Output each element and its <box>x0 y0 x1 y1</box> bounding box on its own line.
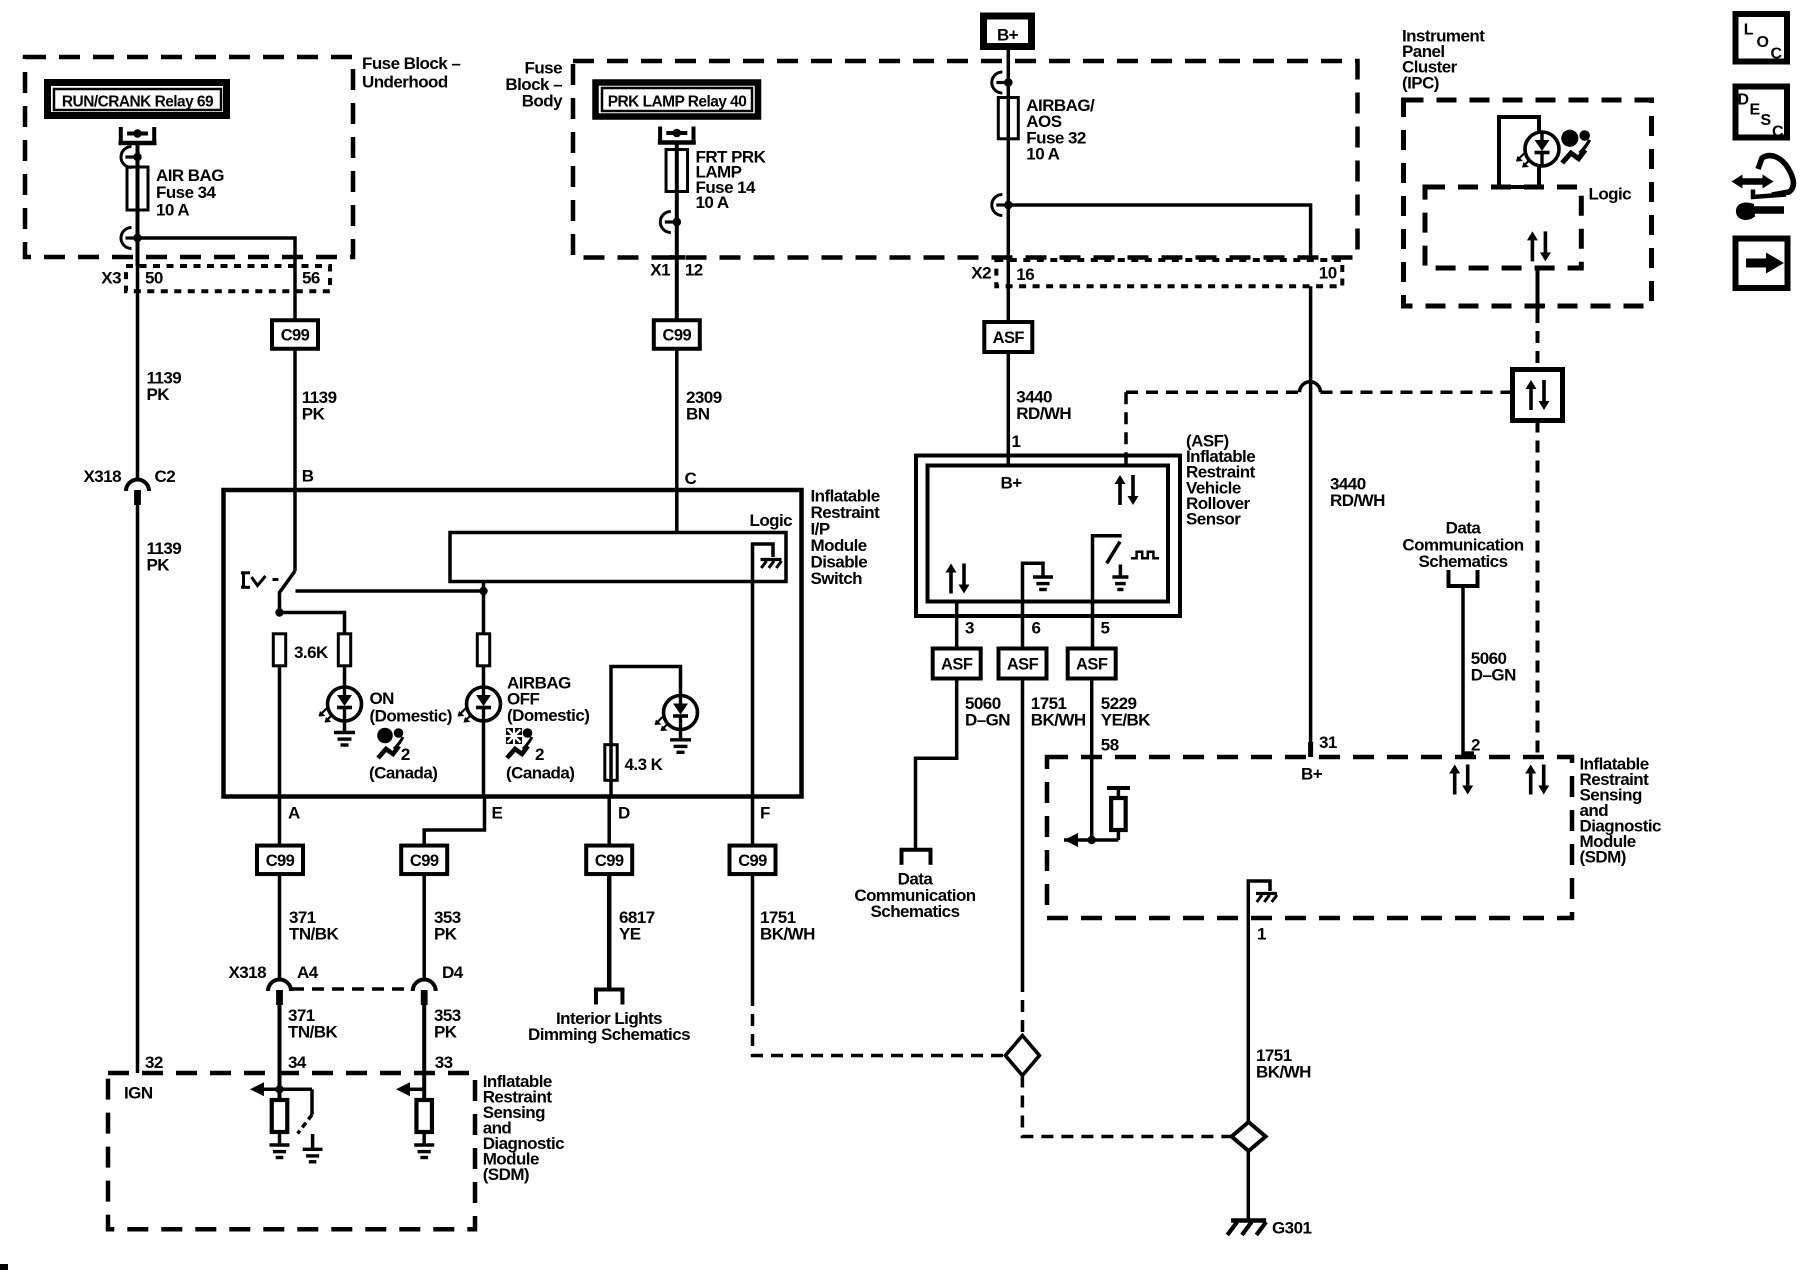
svg-text:Schematics: Schematics <box>871 902 960 921</box>
wire: A to C99 <box>278 797 282 846</box>
connector ASF (pin16 wire) <box>984 322 1032 352</box>
svg-text:X1: X1 <box>650 261 670 280</box>
relay K40 contact <box>658 127 662 144</box>
svg-text:Logic: Logic <box>750 511 793 530</box>
pin31 stub (thick) <box>1308 742 1313 757</box>
wire: resistor to ground (33) <box>422 1132 426 1144</box>
svg-text:3: 3 <box>965 619 974 638</box>
resistor (SDM pin 33) <box>416 1100 432 1132</box>
module box: I/P module disable switch <box>224 490 802 797</box>
svg-text:(Canada): (Canada) <box>506 764 574 783</box>
airbag icon (OFF Canada) <box>506 728 522 744</box>
svg-text:B: B <box>302 467 314 486</box>
ground stem (sensor pin 5) <box>1119 565 1123 577</box>
module box: SDM right (dashed) <box>1047 757 1572 918</box>
connector C99 (C wire) <box>654 320 700 349</box>
connector hook at fuse34 lower <box>121 228 132 249</box>
svg-text:C99: C99 <box>266 852 295 870</box>
dashed wire: IPC to arrow box <box>1536 311 1540 370</box>
svg-text:16: 16 <box>1016 265 1034 284</box>
wire 6817 YE <box>607 874 612 988</box>
tick at X1 crossing <box>669 255 685 260</box>
svg-text:BK/WH: BK/WH <box>760 925 815 944</box>
page corner mark <box>0 1264 8 1270</box>
svg-text:Switch: Switch <box>811 569 863 588</box>
wire: terminal B into switch <box>293 492 297 571</box>
module box: rollover sensor (inner) <box>928 466 1169 602</box>
svg-text:5: 5 <box>1101 619 1110 638</box>
svg-text:Fuse Block –: Fuse Block – <box>362 54 460 73</box>
relay K69 contact <box>119 127 123 144</box>
fuse F14 FRT PRK LAMP 10A <box>675 150 679 192</box>
svg-text:6: 6 <box>1032 619 1041 638</box>
signal arrows (sensor top right) <box>1118 482 1122 505</box>
connector hook at branch <box>992 195 1002 216</box>
connector C99 (E) <box>401 846 447 875</box>
SDM arrow (pin 33) <box>396 1082 410 1096</box>
wire resistor to LED2 <box>482 666 486 687</box>
wire: pin34 into SDM <box>278 1073 282 1100</box>
wire 1751 BK/WH (solid part) <box>1021 679 1025 981</box>
wire: branch to X2-10 <box>1008 205 1310 260</box>
wire 5060 D-GN to data comm ref <box>916 679 957 849</box>
wire: fuse 14 to X1-12 <box>675 192 679 321</box>
connector C99 (F) <box>730 846 776 875</box>
svg-text:PRK LAMP Relay 40: PRK LAMP Relay 40 <box>608 94 747 111</box>
wire: branch to X3-56 <box>138 238 296 266</box>
junction dot switch output <box>275 608 283 616</box>
ground (SDM pin 34) <box>270 1143 290 1146</box>
svg-text:RD/WH: RD/WH <box>1016 404 1071 423</box>
wire: resistor to arrow line <box>1117 830 1121 840</box>
wire: resistor to ground (34) <box>278 1132 282 1144</box>
junction dot fuse14 wire <box>673 218 681 226</box>
wire: E jog to C99 <box>424 797 484 846</box>
sensor internal switch path (pin 5) <box>1093 536 1122 602</box>
connector ASF (pin 6 wire) <box>999 649 1047 679</box>
splice diamond S1 <box>1005 1036 1039 1076</box>
svg-text:B+: B+ <box>1001 474 1023 493</box>
svg-text:10 A: 10 A <box>696 193 729 212</box>
dashed wire: sensor tap (horizontal) <box>1126 391 1300 395</box>
module box: SDM left (dashed) <box>108 1073 475 1229</box>
SDM internal line (pin 33) <box>410 1088 424 1092</box>
connector X318-A4 dome <box>268 980 291 992</box>
dashed wire: hop to IPC arrow box <box>1321 391 1513 395</box>
signal arrows (IPC logic) <box>1531 238 1535 261</box>
wire 1139 PK to SDM pin 32 <box>136 505 140 1074</box>
resistor R 4.3K <box>605 745 617 781</box>
wire: terminal D riser <box>611 667 681 797</box>
chassis ground (logic box) <box>761 558 782 561</box>
resistor R 3.6K <box>273 634 285 666</box>
svg-text:X2: X2 <box>971 264 991 283</box>
svg-text:2: 2 <box>535 745 544 764</box>
svg-text:ON: ON <box>370 689 395 708</box>
SDM internal chassis ground path <box>1248 881 1270 918</box>
svg-text:Sensor: Sensor <box>1186 510 1241 529</box>
module box: rollover sensor (outer) <box>916 456 1180 617</box>
svg-text:E: E <box>1750 102 1761 119</box>
signal arrows (SDM pin 2) <box>1453 772 1457 795</box>
module box: Fuse Block - Underhood (dashed) <box>25 57 353 257</box>
connector X318/C2 dome <box>126 480 149 492</box>
wire: logic to terminal F <box>751 582 755 797</box>
signal arrows (SDM serial data right) <box>1529 772 1533 795</box>
power B+ box <box>984 16 1032 47</box>
wire: sensor pin 5 <box>1091 602 1095 649</box>
connector hook on B+ wire <box>992 72 1002 93</box>
svg-text:A: A <box>288 804 300 823</box>
fuse F32 AIRBAG/AOS 10A <box>1007 98 1011 139</box>
switch blade (SDM) <box>298 1115 312 1134</box>
connector ASF (pin 3 wire) <box>933 649 981 679</box>
relay K40 name box: PRK LAMP Relay 40 <box>596 83 759 117</box>
connector C99 (D) <box>586 846 632 875</box>
wire 371 TN/BK (lower) <box>278 1005 282 1074</box>
junction dot under logic <box>479 587 487 595</box>
switch riser (SDM pin34) <box>310 1089 314 1114</box>
wire 353 PK (upper) <box>422 874 426 980</box>
svg-text:(SDM): (SDM) <box>483 1165 529 1184</box>
wire 1751 BK/WH from SDM pin 1 <box>1247 918 1251 1122</box>
svg-text:F: F <box>760 804 770 823</box>
resistor (SDM pin 34) <box>272 1100 288 1132</box>
svg-text:(Canada): (Canada) <box>369 764 437 783</box>
svg-text:C99: C99 <box>662 327 691 345</box>
relay K69 name box: RUN/CRANK Relay 69 <box>48 83 227 116</box>
svg-text:10: 10 <box>1319 264 1337 283</box>
svg-text:YE: YE <box>619 925 641 944</box>
off-page bracket (interior lights) <box>594 988 625 992</box>
wire: sensor pin 3 <box>955 602 959 649</box>
svg-text:PK: PK <box>434 1023 458 1042</box>
svg-text:56: 56 <box>302 269 320 288</box>
wire 3440 RD/WH from X2-10 to SDM pin 31 <box>1309 286 1313 757</box>
logic box IPC (dashed) <box>1425 187 1581 268</box>
junction dot (pin 58) <box>1088 836 1096 844</box>
wire 5229 YE/BK to SDM pin 58 <box>1090 679 1094 840</box>
chassis ground (SDM internal) <box>1256 892 1277 895</box>
wire 371 TN/BK (upper) <box>278 874 282 980</box>
svg-text:C2: C2 <box>155 467 176 486</box>
wire: terminal C into logic box <box>675 492 679 533</box>
square wave signal icon <box>1131 552 1159 559</box>
svg-text:Logic: Logic <box>1589 185 1632 204</box>
svg-text:PK: PK <box>302 405 326 424</box>
wire: relay 40 output <box>675 144 679 150</box>
svg-text:ASF: ASF <box>941 656 973 674</box>
connector ASF (pin 5 wire) <box>1068 649 1116 679</box>
svg-text:1: 1 <box>1012 432 1021 451</box>
svg-text:C: C <box>1771 46 1783 63</box>
svg-text:C99: C99 <box>738 852 767 870</box>
ground (LED3) <box>670 738 691 741</box>
svg-text:D: D <box>1738 92 1749 109</box>
svg-text:(IPC): (IPC) <box>1402 73 1439 92</box>
svg-text:Underhood: Underhood <box>362 73 448 92</box>
svg-text:L: L <box>1744 22 1754 39</box>
svg-text:10 A: 10 A <box>156 200 189 219</box>
svg-text:4.3 K: 4.3 K <box>625 755 664 774</box>
svg-text:AIR BAG: AIR BAG <box>156 166 224 185</box>
LED indicator AIRBAG OFF <box>467 687 501 721</box>
splice diamond S2 <box>1232 1122 1266 1151</box>
wire: branch resistor to LED1 <box>343 666 347 687</box>
svg-text:RUN/CRANK Relay 69: RUN/CRANK Relay 69 <box>62 94 214 111</box>
SDM internal resistor top bar <box>1107 786 1130 790</box>
ground G301 (chassis) <box>1231 1218 1266 1222</box>
svg-text:G301: G301 <box>1272 1219 1311 1238</box>
svg-text:ASF: ASF <box>1076 656 1108 674</box>
connector X2 row (dotted box) <box>996 260 1342 286</box>
switch output wire (to logic) <box>296 589 484 593</box>
svg-text:E: E <box>492 804 503 823</box>
dashed wire: tap down to sensor <box>1124 392 1128 466</box>
LED indicator (dimming) <box>664 696 698 730</box>
svg-text:TN/BK: TN/BK <box>289 925 339 944</box>
svg-text:D–GN: D–GN <box>965 711 1010 730</box>
connector hook on relay 69 wire <box>121 147 132 168</box>
icon box LOC <box>1736 14 1788 62</box>
svg-text:Body: Body <box>522 92 563 111</box>
dashed wire: splice S1 to splice S2 <box>1022 1076 1231 1137</box>
dashed wire F to splice S1 <box>753 994 1006 1056</box>
svg-text:C: C <box>685 469 697 488</box>
svg-text:X3: X3 <box>101 269 121 288</box>
logic box (disable switch) <box>450 533 786 582</box>
svg-text:Fuse 34: Fuse 34 <box>156 183 217 202</box>
svg-text:D: D <box>618 804 630 823</box>
svg-text:10 A: 10 A <box>1026 145 1059 164</box>
svg-text:A4: A4 <box>297 963 319 982</box>
svg-text:O: O <box>1757 34 1769 51</box>
wire: fuse 32 to X2-16 <box>1007 139 1011 286</box>
ground (sensor pin 5) <box>1112 575 1128 578</box>
svg-text:D4: D4 <box>442 963 464 982</box>
svg-text:1: 1 <box>1257 925 1266 944</box>
off-page bracket (data comm left) <box>900 848 933 852</box>
wire: logic to LED2 <box>482 582 486 634</box>
connector X318-D4 dome <box>413 980 436 992</box>
ground (SDM pin 33) <box>414 1143 434 1146</box>
svg-text:(Domestic): (Domestic) <box>370 706 452 725</box>
key dash <box>273 578 279 581</box>
wire hop over 3440 RD/WH <box>1300 382 1321 393</box>
svg-text:BK/WH: BK/WH <box>1256 1063 1311 1082</box>
svg-text:12: 12 <box>685 261 703 280</box>
svg-text:PK: PK <box>434 925 458 944</box>
connector C99 (A) <box>257 846 303 875</box>
ground stem (SDM switch) <box>311 1134 315 1148</box>
wire 5060 D-GN from data comm to SDM pin 2 <box>1461 586 1465 755</box>
svg-text:PK: PK <box>147 385 171 404</box>
ground (sensor pin 6) <box>1033 575 1053 578</box>
icon: schematic arrows <box>1739 178 1766 185</box>
fuse F34 AIR BAG 10A <box>136 167 140 210</box>
ground (SDM switch) <box>303 1148 323 1151</box>
SDM arrow (pin 34) <box>250 1082 264 1096</box>
svg-text:32: 32 <box>145 1053 163 1072</box>
wire 1139 PK from X3-50 <box>136 266 140 480</box>
svg-text:ASF: ASF <box>1007 656 1039 674</box>
wire: D to C99 <box>607 797 611 846</box>
ground stem LED1 <box>343 721 347 732</box>
wire: R3.6K to terminal A <box>278 666 282 797</box>
wire: sensor pin 6 <box>1021 602 1025 649</box>
svg-text:(SDM): (SDM) <box>1580 848 1626 867</box>
svg-text:PK: PK <box>147 556 171 575</box>
module box: IPC (dashed) <box>1404 100 1652 306</box>
wire: fuse 34 to X3-50 <box>136 210 140 266</box>
junction: fuse34 branch <box>133 234 141 242</box>
icon box DESC <box>1736 87 1788 138</box>
wire: F to C99 <box>751 797 755 846</box>
wire: LED2 to terminal E <box>482 721 486 797</box>
SDM internal arrow (pin 58) <box>1064 833 1078 847</box>
serial data arrow box <box>1513 370 1563 421</box>
svg-text:2: 2 <box>401 745 410 764</box>
wire: X2-16 to ASF <box>1007 286 1011 322</box>
svg-text:Schematics: Schematics <box>1419 552 1508 571</box>
airbag icon (IPC) <box>1561 130 1590 163</box>
key icon <box>241 571 250 574</box>
IPC LED frame <box>1499 117 1539 187</box>
svg-text:B+: B+ <box>1301 765 1323 784</box>
svg-text:Dimming Schematics: Dimming Schematics <box>528 1025 690 1044</box>
wire 2309 BN to terminal C <box>675 349 679 535</box>
switch blade (sensor) <box>1107 542 1120 564</box>
wire: splice S2 to G301 <box>1247 1151 1251 1220</box>
wire: B+ to fuse 32 <box>1007 50 1011 98</box>
svg-text:RD/WH: RD/WH <box>1330 491 1385 510</box>
connector X3 row (dotted box) <box>126 266 330 291</box>
svg-text:C99: C99 <box>281 327 310 345</box>
signal arrows (arrow box) <box>1529 387 1533 410</box>
svg-text:3.6K: 3.6K <box>294 643 329 662</box>
svg-text:IGN: IGN <box>124 1084 153 1103</box>
dashed wire to splice <box>1021 980 1025 1036</box>
wire: X3-56 to C99 <box>293 266 297 321</box>
wire: IPC logic output <box>1536 268 1540 311</box>
wire 1139 PK to terminal B <box>293 349 297 493</box>
LED indicator (IPC airbag lamp) <box>1525 132 1559 166</box>
resistor (LED2 branch) <box>477 634 489 666</box>
resistor (SDM pin 58) <box>1111 798 1126 830</box>
icon box arrow <box>1736 239 1788 289</box>
junction dot B+ wire <box>1004 78 1012 86</box>
module box: Fuse Block - Body (dashed) <box>573 61 1358 258</box>
svg-text:ASF: ASF <box>993 329 1025 347</box>
svg-text:C: C <box>1772 124 1784 141</box>
junction: B+ branch <box>1004 201 1012 209</box>
svg-text:YE/BK: YE/BK <box>1101 711 1151 730</box>
SDM internal resistor stem <box>1117 788 1121 798</box>
pin2 foot tick <box>1463 751 1474 755</box>
svg-text:C99: C99 <box>595 852 624 870</box>
svg-text:31: 31 <box>1319 733 1337 752</box>
svg-text:TN/BK: TN/BK <box>288 1023 338 1042</box>
wire 1751 BK/WH from C99 F <box>751 874 755 994</box>
signal arrows (sensor bottom left) <box>949 571 953 594</box>
ground stem LED3 <box>679 730 683 739</box>
dashed wire: arrow box to SDM <box>1536 421 1540 756</box>
tick at IPC boundary <box>1531 304 1546 308</box>
svg-text:BN: BN <box>686 405 710 424</box>
svg-text:34: 34 <box>288 1053 307 1072</box>
wire: relay 69 output <box>136 144 140 167</box>
dashed connector link X318 <box>292 987 412 991</box>
off-page bracket (data comm right) <box>1447 584 1480 588</box>
wire: switch node branch <box>280 613 345 634</box>
airbag icon (ON Canada) <box>377 728 393 744</box>
SDM internal wire (pin 58) <box>1064 838 1118 842</box>
svg-text:2: 2 <box>1471 736 1480 755</box>
svg-text:S: S <box>1761 112 1772 129</box>
svg-text:X318: X318 <box>83 467 121 486</box>
svg-text:(Domestic): (Domestic) <box>507 706 589 725</box>
svg-text:50: 50 <box>145 269 163 288</box>
svg-text:33: 33 <box>435 1053 453 1072</box>
LED indicator ON <box>328 687 362 721</box>
connector C99 (B wire) <box>272 320 318 349</box>
junction dot pin34 <box>275 1085 283 1093</box>
connector hook on fuse14 wire <box>660 212 671 233</box>
svg-text:58: 58 <box>1101 736 1119 755</box>
ground (LED1) <box>334 731 355 734</box>
key switch blade <box>280 571 296 613</box>
svg-text:D–GN: D–GN <box>1471 666 1516 685</box>
sensor internal ground path (pin 6) <box>1023 563 1044 601</box>
logic chassis notch path <box>753 544 774 582</box>
svg-text:B+: B+ <box>997 26 1019 45</box>
wire 3440 RD/WH to sensor pin 1 <box>1007 352 1011 466</box>
resistor (LED1 branch) <box>338 634 350 666</box>
SDM internal line (pin 34) <box>264 1088 312 1092</box>
wire 353 PK (lower) <box>422 1005 426 1074</box>
svg-text:C99: C99 <box>410 852 439 870</box>
svg-text:X318: X318 <box>228 963 266 982</box>
wire: pin33 into SDM <box>422 1073 426 1100</box>
svg-text:BK/WH: BK/WH <box>1031 711 1086 730</box>
